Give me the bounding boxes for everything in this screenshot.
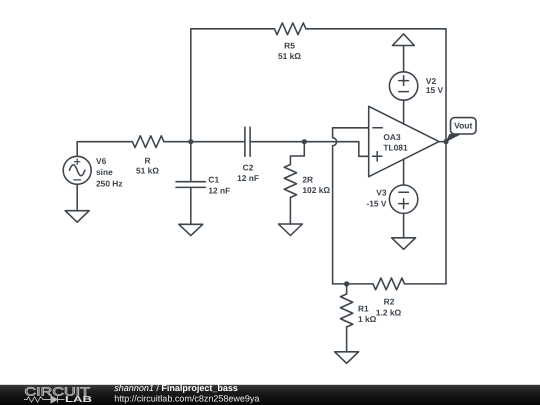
- svg-text:V6: V6: [96, 156, 107, 166]
- resistor R: [132, 136, 164, 148]
- op-amp OA3 triangle: [369, 106, 439, 176]
- resistor R1: [340, 294, 352, 327]
- svg-text:http://circuitlab.com/c8zn258e: http://circuitlab.com/c8zn258ewe9ya: [114, 393, 259, 403]
- Vout flag box: [451, 118, 477, 134]
- wire C2 to node B: [250, 141, 304, 143]
- wire V3 to ground: [403, 213, 405, 238]
- Vout flag pointer: [446, 134, 463, 143]
- node C junction dot: [344, 281, 349, 286]
- svg-text:V3: V3: [376, 187, 387, 197]
- wire C1 to ground: [190, 187, 192, 224]
- svg-text:2R: 2R: [302, 175, 313, 185]
- ground below V3: [392, 238, 416, 250]
- label V6: [96, 156, 123, 189]
- svg-text:51 kΩ: 51 kΩ: [278, 51, 301, 61]
- wire node A down to C1: [190, 142, 192, 182]
- wire R to node A: [164, 141, 191, 143]
- svg-text:sine: sine: [96, 167, 113, 177]
- svg-text:1.2 kΩ: 1.2 kΩ: [376, 308, 402, 318]
- wire feedback vertical with hop over input wire: [333, 128, 337, 284]
- wire node B to op-amp plus input: [304, 142, 368, 157]
- voltage source V3: [389, 185, 417, 213]
- svg-text:12 nF: 12 nF: [237, 173, 259, 183]
- label C2: [237, 162, 259, 183]
- svg-text:Vout: Vout: [454, 121, 472, 131]
- node A junction dot: [188, 139, 193, 144]
- resistor R5: [274, 23, 306, 35]
- VCC arrow symbol: [392, 34, 414, 46]
- wire 2R to ground: [289, 198, 291, 225]
- svg-text:12 nF: 12 nF: [208, 185, 230, 195]
- wire op-amp V+ pin to V2: [403, 100, 405, 124]
- svg-text:TL081: TL081: [383, 142, 408, 152]
- svg-text:OA3: OA3: [383, 132, 401, 142]
- svg-text:C1: C1: [208, 174, 219, 184]
- svg-text:R2: R2: [384, 297, 395, 307]
- svg-text:250 Hz: 250 Hz: [96, 179, 123, 189]
- wire R1 to ground: [346, 327, 348, 352]
- label 2R: [302, 175, 330, 195]
- svg-text:C2: C2: [243, 162, 254, 172]
- svg-text:R1: R1: [358, 303, 369, 313]
- svg-text:15 V: 15 V: [426, 85, 444, 95]
- ground below 2R: [278, 224, 302, 236]
- wire V6 bottom to ground: [76, 185, 78, 211]
- ground below V6: [65, 211, 89, 223]
- svg-text:LAB: LAB: [65, 394, 92, 404]
- label V3: [366, 187, 386, 208]
- label R: [136, 155, 159, 175]
- CircuitLab logo resistor-diode glyph: [24, 396, 65, 403]
- wire node B jog down to 2R: [290, 142, 304, 165]
- wire op-amp minus input: [333, 127, 369, 129]
- label OA3: [383, 132, 408, 153]
- wire R5 to right rail corner: [306, 29, 446, 142]
- footer bar: [0, 385, 540, 405]
- label V2: [426, 76, 444, 95]
- svg-text:-15 V: -15 V: [366, 199, 386, 209]
- output node junction dot: [443, 139, 448, 144]
- label R1: [358, 303, 377, 324]
- wire from V6 top to resistor R: [77, 142, 132, 157]
- op-amp minus sign: [373, 127, 382, 129]
- wire node A up and to R5: [191, 29, 275, 142]
- wire right rail output to R2: [405, 142, 447, 284]
- resistor 2R: [284, 165, 296, 198]
- voltage source V6: [63, 156, 91, 184]
- op-amp plus sign: [373, 152, 382, 161]
- capacitor C2: [245, 127, 250, 156]
- ground below C1: [179, 224, 203, 235]
- ground below R1: [335, 352, 359, 364]
- capacitor C1: [176, 182, 205, 188]
- wire node A to C2: [191, 141, 245, 143]
- svg-text:R5: R5: [284, 40, 295, 50]
- wire op-amp V- pin to V3: [403, 159, 405, 185]
- svg-text:R: R: [144, 155, 150, 165]
- svg-text:shannon1 / Finalproject_bass: shannon1 / Finalproject_bass: [114, 383, 238, 393]
- label C1: [208, 174, 230, 195]
- label R2: [376, 297, 402, 318]
- wire bottom to node C: [333, 283, 347, 285]
- svg-text:1 kΩ: 1 kΩ: [358, 314, 377, 324]
- node B junction dot: [302, 139, 307, 144]
- svg-text:102 kΩ: 102 kΩ: [302, 185, 330, 195]
- resistor R2: [373, 278, 405, 290]
- wire op-amp output to rail: [439, 141, 446, 143]
- voltage source V2: [389, 72, 417, 100]
- wire node C down to R1: [346, 284, 348, 294]
- label R5: [278, 40, 301, 61]
- svg-text:51 kΩ: 51 kΩ: [136, 165, 159, 175]
- wire V2 top to VCC arrow: [403, 46, 405, 72]
- wire node C to R2: [347, 283, 373, 285]
